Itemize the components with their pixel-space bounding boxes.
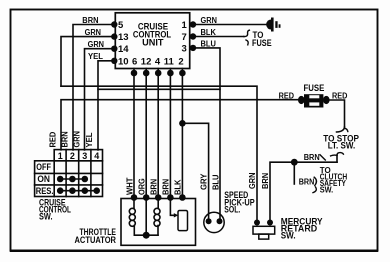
svg-text:ON: ON	[37, 174, 50, 184]
wire BLU pin3	[193, 48, 220, 221]
resistor R1	[178, 211, 188, 231]
svg-text:BRN: BRN	[82, 15, 98, 25]
svg-text:RED: RED	[332, 90, 347, 100]
pin bullet 3	[190, 45, 196, 51]
svg-text:LT. SW.: LT. SW.	[328, 140, 356, 150]
svg-text:13: 13	[118, 32, 129, 43]
label TO FUSE	[252, 30, 272, 48]
svg-text:2: 2	[70, 151, 75, 161]
svg-text:YEL: YEL	[88, 51, 103, 61]
mercury terminal BRN	[267, 220, 273, 226]
wire pin4 BRN down	[157, 69, 159, 198]
label SPEED PICK-UP SOL.	[224, 190, 254, 215]
wire bus lineB YEL to BLU	[98, 88, 220, 90]
svg-text:11: 11	[164, 56, 175, 67]
svg-text:SW.: SW.	[281, 231, 296, 241]
svg-text:BRN: BRN	[299, 176, 315, 186]
svg-text:WHT: WHT	[124, 177, 134, 195]
wire actuator common	[134, 234, 158, 236]
wire bus line1 GRN13 to mercury	[61, 86, 257, 222]
wire pin11 BRN down	[169, 69, 171, 198]
svg-text:RED: RED	[279, 90, 294, 100]
svg-text:FUSE: FUSE	[252, 38, 272, 48]
label CRUISE CONTROL UNIT	[133, 22, 172, 48]
throttle actuator box	[121, 199, 196, 246]
svg-text:SOL.: SOL.	[224, 205, 240, 215]
svg-text:BLK: BLK	[173, 179, 183, 195]
svg-text:GRN: GRN	[201, 15, 217, 25]
svg-text:BLU: BLU	[201, 39, 216, 49]
wire pin12 ORG down	[145, 69, 147, 198]
label TO STOP LT. SW.	[323, 134, 359, 151]
svg-text:ACTUATOR: ACTUATOR	[75, 235, 117, 245]
svg-text:4: 4	[94, 151, 99, 161]
svg-text:1: 1	[58, 151, 63, 161]
wire YEL pin10	[98, 61, 114, 150]
svg-text:6: 6	[132, 56, 137, 67]
svg-text:YEL: YEL	[84, 133, 94, 148]
pin bullet 4b	[155, 70, 162, 77]
pin bullet 11b	[167, 70, 174, 77]
svg-text:2: 2	[178, 56, 183, 67]
sol terminal GRY	[206, 218, 212, 224]
connector squiggle to fuse	[244, 30, 250, 36]
pin bullet 5	[111, 21, 117, 27]
svg-text:BLU: BLU	[210, 175, 220, 190]
wire BLK pin7	[193, 36, 244, 38]
actuator terminal bullets	[131, 194, 138, 201]
svg-text:UNIT: UNIT	[142, 37, 164, 47]
pin bullet 13	[111, 33, 117, 39]
svg-text:GRY: GRY	[199, 173, 209, 190]
junction BLK to GRY	[179, 120, 186, 127]
svg-text:7: 7	[182, 32, 187, 43]
hook stop light end	[337, 127, 345, 132]
wire pin2 BLK down	[181, 69, 183, 198]
svg-text:BRN: BRN	[304, 152, 320, 162]
svg-text:3: 3	[82, 151, 87, 161]
sol terminal BLU	[217, 218, 223, 224]
svg-text:10: 10	[118, 56, 129, 67]
svg-text:BRN: BRN	[260, 173, 270, 189]
svg-text:12: 12	[141, 56, 152, 67]
svg-text:SW.: SW.	[320, 184, 334, 194]
svg-text:BRN: BRN	[60, 131, 70, 147]
junction actuator	[143, 232, 150, 239]
pin bullet 6	[131, 70, 138, 77]
inductor coil L1	[133, 198, 135, 209]
table column numbers	[58, 151, 100, 161]
wire fuse to stop light	[330, 100, 345, 128]
inductor coil L2	[157, 198, 159, 209]
wire GRN pin13	[61, 37, 114, 87]
switch ON contacts	[60, 178, 85, 180]
wire GRN pin1	[193, 24, 267, 26]
svg-text:BRN: BRN	[149, 179, 159, 195]
switch RES contacts	[60, 190, 96, 192]
svg-text:3: 3	[182, 43, 187, 54]
svg-text:GRN: GRN	[85, 27, 101, 37]
svg-text:4: 4	[155, 56, 161, 67]
wiper arrowhead	[174, 213, 179, 217]
wire ORG to junction	[145, 198, 147, 236]
svg-text:GRN: GRN	[72, 131, 82, 147]
pin bullet 7	[190, 33, 196, 39]
wire BRN down to clutch connector	[293, 162, 295, 184]
svg-text:14: 14	[118, 44, 129, 55]
wire pin6 WHT down	[133, 69, 135, 198]
svg-text:ORG: ORG	[137, 178, 147, 195]
wire BRN up to stop light	[336, 155, 338, 162]
wire GRY branch	[182, 123, 208, 221]
junction BRN	[291, 159, 298, 166]
svg-text:RES.: RES.	[36, 186, 54, 196]
label TO CLUTCH SAFETY SW.	[320, 165, 348, 194]
label MERCURY RETARD SW.	[281, 216, 323, 240]
svg-text:RED: RED	[48, 132, 58, 148]
svg-text:5: 5	[118, 20, 124, 31]
svg-text:GRN: GRN	[88, 39, 104, 49]
svg-text:BLK: BLK	[201, 27, 217, 37]
wire BRN pin5	[73, 25, 114, 151]
connector halves clutch	[314, 177, 316, 185]
label THROTTLE ACTUATOR	[75, 227, 117, 245]
wire BRN mercury to junction	[270, 162, 337, 222]
fuse F1	[298, 94, 330, 107]
connector plug on GRN	[266, 18, 281, 32]
svg-text:OFF: OFF	[36, 162, 51, 172]
svg-text:FUSE: FUSE	[304, 83, 325, 93]
label CRUISE CONTROL SW.	[39, 197, 71, 221]
svg-text:1: 1	[182, 20, 188, 31]
pin bullet 2b	[179, 70, 186, 77]
leader tick BRN	[320, 155, 325, 160]
wire bus lineC RED fuse	[61, 100, 299, 150]
mercury terminal GRN	[254, 220, 260, 226]
svg-text:BRN: BRN	[161, 179, 171, 195]
wire BRN11 wiper	[170, 198, 175, 216]
cruise control switch table	[35, 150, 103, 197]
op-amp U1 cruise control unit box	[115, 13, 189, 69]
svg-text:GRN: GRN	[247, 173, 257, 189]
svg-text:SW.: SW.	[39, 211, 53, 221]
pin bullet 10	[111, 58, 117, 64]
pin bullet 14	[111, 46, 117, 52]
mercury retard switch	[253, 226, 275, 234]
hook stop top	[337, 153, 343, 155]
wire GRN pin14	[85, 49, 115, 150]
pin bullet 12	[143, 70, 150, 77]
pin bullet 1	[190, 21, 196, 27]
table row labels	[36, 162, 54, 196]
solenoid SPEED PICK-UP SOL	[204, 212, 224, 232]
